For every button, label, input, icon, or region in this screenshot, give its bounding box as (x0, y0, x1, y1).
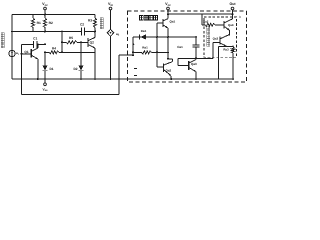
wire node vertical x=62 (61, 32, 63, 53)
small minus mark (134, 75, 137, 77)
resistor R5 (61, 32, 63, 43)
resistor R4 (45, 51, 49, 53)
diode Da1 (points left) (140, 34, 146, 39)
svg-text:Vcc: Vcc (42, 2, 48, 7)
svg-text:Qa2: Qa2 (166, 68, 172, 72)
svg-text:R2: R2 (49, 21, 53, 25)
svg-text:Qa3: Qa3 (191, 62, 197, 66)
transistor Qa1 (162, 19, 164, 27)
svg-text:Qa3: Qa3 (213, 37, 219, 41)
svg-text:Out: Out (229, 2, 236, 6)
wire x=168 vertical (167, 37, 169, 59)
label (rotated) for current source (100, 18, 103, 22)
svg-text:R4: R4 (52, 46, 56, 50)
wire box Vcc rail (168, 13, 233, 15)
resistor R1 (32, 15, 34, 19)
transistor Q1 (30, 49, 32, 58)
wire emitter node y=46.4 (219, 45, 233, 47)
svg-text:C1: C1 (33, 37, 37, 41)
svg-text:Vcc: Vcc (165, 2, 171, 7)
svg-text:Ra2: Ra2 (203, 20, 209, 24)
transistor Qa2 (168, 58, 173, 60)
svg-text:Ra3: Ra3 (223, 47, 229, 51)
ground rail y=79 (12, 78, 233, 80)
svg-text:ai: ai (16, 51, 19, 56)
wire ladder left vertical x=133 (132, 37, 134, 55)
resistor R2 (44, 15, 46, 19)
svg-text:Da1: Da1 (141, 29, 147, 33)
resistor R3 (94, 15, 96, 19)
label unit title (CJK) (140, 16, 144, 20)
label inner unit (rotated CJK) (207, 26, 210, 29)
transistor Qa3 (middle) (177, 58, 179, 65)
transistor Q2 (87, 38, 89, 47)
controlled current source a2 (diamond) (107, 29, 113, 36)
capacitor Ca1 (195, 37, 197, 45)
svg-text:b: b (239, 15, 241, 19)
wire left vertical (input branch) (11, 15, 13, 51)
inner dashed box (204, 17, 237, 57)
wire ladder rung y=37 with diode Da1 (133, 36, 196, 38)
resistor Ra3 (232, 45, 234, 48)
wire Vcc rail (12, 14, 95, 16)
capacitor C1 (22, 43, 34, 45)
svg-text:Ca1: Ca1 (177, 45, 183, 49)
wire bottom feedback loop (21, 79, 23, 95)
svg-text:Qa4: Qa4 (228, 23, 234, 27)
svg-text:Q2: Q2 (90, 40, 94, 44)
transistor Qa3b (inner lower) (219, 36, 221, 44)
capacitor C2 (80, 28, 82, 36)
svg-text:R1: R1 (37, 21, 41, 25)
dashed box: protection unit (128, 11, 247, 82)
svg-text:Vss: Vss (42, 88, 48, 93)
svg-text:C2: C2 (80, 22, 84, 26)
svg-text:Qa1: Qa1 (170, 20, 176, 24)
svg-text:a2: a2 (116, 32, 120, 37)
wire mid bus y=31.5 (12, 31, 81, 33)
resistor Ra1 (133, 51, 142, 53)
label input signal (rotated text) (1, 33, 4, 37)
transistor Qa4 (223, 21, 225, 29)
svg-text:Vin: Vin (108, 2, 113, 7)
small minus mark 2 (134, 68, 137, 70)
node Vss terminal (44, 79, 46, 83)
diode D1 (44, 52, 46, 65)
svg-text:D1: D1 (49, 67, 53, 71)
svg-text:R5: R5 (69, 36, 73, 40)
wire R4 node to Q2 emitter (62, 51, 95, 53)
resistor Ra2 (201, 14, 203, 25)
svg-text:D2: D2 (73, 67, 77, 71)
wire C1/base vertical x=21.5 (21, 44, 23, 79)
svg-text:Q1: Q1 (24, 50, 28, 54)
wire collector bus y=58.3 (178, 57, 213, 59)
svg-text:Ra1: Ra1 (142, 45, 148, 49)
wire Qa1 base vertical x=157 (156, 23, 158, 67)
signal source AC input (9, 50, 15, 56)
svg-text:R3: R3 (88, 19, 92, 23)
diode D2 (80, 42, 82, 65)
